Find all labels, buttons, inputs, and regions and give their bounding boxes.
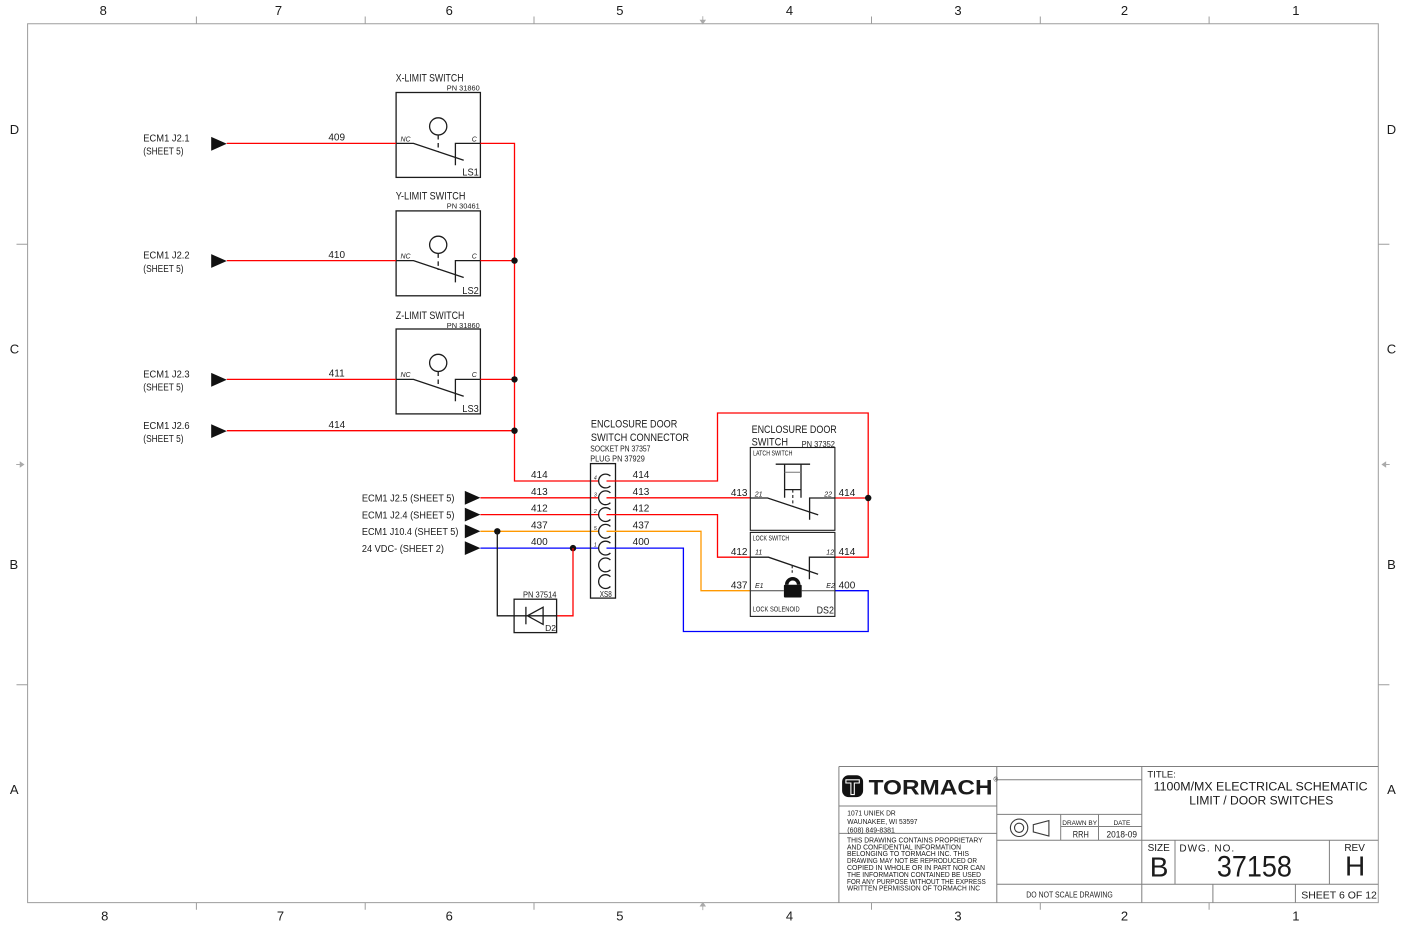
svg-text:B: B: [1387, 557, 1396, 572]
svg-text:ECM1 J2.5 (SHEET 5): ECM1 J2.5 (SHEET 5): [362, 494, 455, 505]
wire red bus from LS1 C down to connector pin 4: [480, 143, 599, 481]
svg-text:SHEET 6 OF 12: SHEET 6 OF 12: [1301, 889, 1377, 901]
wire 414 from ECM1 J2.6: [227, 420, 515, 431]
connector XS8: [590, 418, 689, 598]
svg-text:Z-LIMIT SWITCH: Z-LIMIT SWITCH: [396, 310, 465, 322]
third angle projection symbol: [1010, 819, 1049, 836]
svg-text:C: C: [1387, 342, 1396, 357]
wire 437 left: [480, 520, 599, 531]
svg-text:400: 400: [633, 537, 650, 548]
svg-text:(SHEET 5): (SHEET 5): [143, 383, 183, 394]
node 24 VDC-: [362, 541, 481, 555]
svg-text:6: 6: [446, 909, 453, 924]
svg-text:TORMACH: TORMACH: [869, 776, 993, 799]
svg-text:SWITCH: SWITCH: [752, 437, 788, 449]
wire 413 right: [607, 487, 751, 498]
wire 412 right: [607, 504, 751, 558]
junction at 414 right bus: [865, 495, 871, 501]
svg-text:412: 412: [633, 504, 650, 515]
svg-text:1: 1: [1292, 3, 1299, 18]
svg-text:411: 411: [329, 369, 345, 380]
svg-text:414: 414: [531, 470, 548, 481]
svg-text:8: 8: [100, 3, 107, 18]
svg-text:LATCH SWITCH: LATCH SWITCH: [753, 450, 792, 457]
svg-text:414: 414: [839, 547, 856, 558]
junction on 400 to diode branch: [570, 545, 576, 551]
svg-text:(SHEET 5): (SHEET 5): [143, 264, 183, 275]
svg-text:E2: E2: [826, 583, 835, 590]
svg-text:LS3: LS3: [462, 403, 479, 415]
drawn by / date cells: [1062, 820, 1137, 840]
svg-text:410: 410: [328, 250, 345, 261]
svg-text:1: 1: [1292, 909, 1299, 924]
svg-text:D2: D2: [545, 623, 556, 633]
svg-text:NC: NC: [401, 137, 412, 144]
svg-text:WRITTEN PERMISSION OF TORMACH: WRITTEN PERMISSION OF TORMACH INC: [847, 886, 980, 893]
svg-text:2: 2: [1121, 3, 1128, 18]
svg-text:®: ®: [994, 777, 999, 784]
svg-text:(SHEET 5): (SHEET 5): [143, 147, 183, 158]
svg-text:412: 412: [531, 504, 548, 515]
svg-text:437: 437: [531, 520, 548, 531]
limit switch LS1: [396, 72, 481, 178]
svg-text:DRAWN BY: DRAWN BY: [1062, 820, 1097, 827]
wire 400 left: [480, 537, 599, 548]
node ECM1 J10.4: [362, 524, 481, 538]
node ECM1 J2.4: [362, 508, 481, 522]
node ECM1 J2.2: [143, 251, 227, 275]
svg-text:414: 414: [633, 470, 650, 481]
svg-text:414: 414: [839, 488, 856, 499]
svg-text:H: H: [1345, 851, 1365, 882]
junction on 437 to diode branch: [494, 528, 500, 534]
svg-text:1100M/MX ELECTRICAL SCHEMATIC: 1100M/MX ELECTRICAL SCHEMATIC: [1154, 782, 1368, 794]
svg-text:4: 4: [594, 476, 597, 482]
wire 414 net right of connector: [607, 413, 869, 557]
svg-text:400: 400: [531, 537, 548, 548]
svg-text:8: 8: [101, 909, 108, 924]
svg-text:437: 437: [731, 581, 748, 592]
limit switch LS2: [396, 191, 481, 297]
TITLEBLOCK_GROUP: [839, 767, 1378, 903]
node ECM1 J2.6: [143, 421, 227, 445]
svg-text:ECM1 J10.4 (SHEET 5): ECM1 J10.4 (SHEET 5): [362, 527, 459, 538]
lock switch box: [750, 532, 835, 616]
wire 409: [227, 133, 396, 144]
wire 412 left: [480, 504, 599, 515]
enclosure door switch DS2: [750, 424, 837, 616]
svg-text:4: 4: [786, 3, 793, 18]
svg-text:LS2: LS2: [462, 285, 479, 297]
svg-text:D: D: [10, 122, 19, 137]
svg-text:ECM1 J2.2: ECM1 J2.2: [143, 251, 190, 262]
svg-text:37158: 37158: [1217, 851, 1292, 884]
svg-text:11: 11: [755, 550, 762, 557]
svg-text:B: B: [1150, 852, 1169, 883]
node ECM1 J2.1: [143, 134, 227, 158]
svg-text:DATE: DATE: [1113, 820, 1131, 827]
latch actuator symbol: [776, 463, 810, 465]
svg-text:B: B: [9, 557, 18, 572]
svg-text:ECM1 J2.1: ECM1 J2.1: [143, 134, 190, 145]
svg-text:(608) 849-8381: (608) 849-8381: [847, 825, 895, 834]
svg-text:PN 37514: PN 37514: [523, 590, 557, 599]
svg-text:3: 3: [954, 909, 961, 924]
size / dwg no / rev: [1148, 843, 1366, 883]
svg-text:5: 5: [594, 526, 597, 532]
svg-text:4: 4: [786, 909, 793, 924]
svg-text:X-LIMIT SWITCH: X-LIMIT SWITCH: [396, 72, 464, 84]
junction at 414 / J2.6: [511, 428, 517, 434]
Tormach logo: [842, 775, 998, 799]
svg-text:3: 3: [954, 3, 961, 18]
svg-text:3: 3: [594, 492, 597, 498]
svg-text:437: 437: [633, 520, 650, 531]
svg-text:2: 2: [593, 509, 597, 515]
svg-text:2: 2: [1121, 909, 1128, 924]
svg-text:5: 5: [616, 909, 623, 924]
svg-text:7: 7: [277, 909, 284, 924]
svg-text:ENCLOSURE DOOR: ENCLOSURE DOOR: [752, 424, 837, 436]
svg-text:24 VDC- (SHEET 2): 24 VDC- (SHEET 2): [362, 544, 444, 555]
svg-text:2018-09: 2018-09: [1107, 829, 1138, 840]
svg-text:LS1: LS1: [462, 167, 479, 179]
address block: [847, 808, 917, 834]
svg-text:ENCLOSURE DOOR: ENCLOSURE DOOR: [591, 418, 677, 430]
node ECM1 J2.3: [143, 370, 227, 394]
node ECM1 J2.5: [362, 491, 481, 505]
svg-text:RRH: RRH: [1073, 829, 1089, 840]
svg-text:PN 30461: PN 30461: [447, 204, 480, 211]
wire latch pin 22 stub: [835, 497, 868, 499]
svg-text:E1: E1: [755, 583, 764, 590]
svg-text:D: D: [1387, 122, 1396, 137]
svg-text:409: 409: [328, 133, 345, 144]
svg-text:414: 414: [329, 420, 346, 431]
lock solenoid padlock: [787, 579, 799, 585]
solenoid E1-E2 line: [750, 590, 835, 592]
wire 413 left: [480, 487, 599, 498]
svg-text:A: A: [10, 782, 19, 797]
svg-text:5: 5: [616, 3, 623, 18]
latch switch box: [750, 448, 835, 531]
svg-text:XS8: XS8: [600, 590, 612, 599]
wire 437 right: [607, 520, 751, 590]
SCHEMATIC_GROUP: [143, 72, 871, 633]
svg-text:NC: NC: [401, 372, 412, 379]
wire 400 right: [607, 537, 869, 631]
svg-text:ECM1 J2.4 (SHEET 5): ECM1 J2.4 (SHEET 5): [362, 510, 455, 521]
svg-text:DS2: DS2: [817, 605, 835, 616]
svg-text:LOCK SWITCH: LOCK SWITCH: [753, 535, 790, 542]
svg-text:400: 400: [839, 581, 856, 592]
svg-text:LOCK SOLENOID: LOCK SOLENOID: [753, 607, 800, 614]
svg-text:1: 1: [594, 543, 597, 549]
title: [1147, 770, 1367, 808]
svg-text:TITLE:: TITLE:: [1147, 770, 1176, 781]
legal text: [847, 837, 986, 892]
wire 410: [227, 250, 396, 261]
svg-text:DO NOT SCALE DRAWING: DO NOT SCALE DRAWING: [1026, 890, 1112, 899]
svg-text:C: C: [10, 342, 19, 357]
limit switch LS3: [396, 310, 481, 415]
svg-text:413: 413: [731, 488, 748, 499]
svg-text:1071 UNIEK DR: 1071 UNIEK DR: [847, 808, 896, 817]
svg-text:SWITCH CONNECTOR: SWITCH CONNECTOR: [591, 432, 689, 444]
svg-text:12: 12: [826, 550, 834, 557]
diode D2: [497, 531, 573, 633]
svg-text:PLUG PN 37929: PLUG PN 37929: [590, 455, 645, 464]
wire LS3 C to bus: [480, 378, 514, 380]
svg-text:413: 413: [633, 487, 650, 498]
junction at LS2 C: [511, 257, 517, 263]
svg-text:NC: NC: [401, 254, 412, 261]
svg-text:412: 412: [731, 547, 748, 558]
svg-text:A: A: [1387, 782, 1396, 797]
svg-text:7: 7: [275, 3, 282, 18]
svg-text:(SHEET 5): (SHEET 5): [143, 434, 183, 445]
svg-text:6: 6: [446, 3, 453, 18]
svg-text:Y-LIMIT SWITCH: Y-LIMIT SWITCH: [396, 191, 466, 203]
svg-text:ECM1 J2.3: ECM1 J2.3: [143, 370, 190, 381]
wire 411: [227, 369, 396, 380]
svg-text:ECM1 J2.6: ECM1 J2.6: [143, 421, 190, 432]
wire LS2 C to bus: [480, 260, 514, 262]
svg-text:PN 31860: PN 31860: [447, 85, 480, 92]
svg-text:LIMIT / DOOR SWITCHES: LIMIT / DOOR SWITCHES: [1189, 795, 1333, 807]
junction at LS3 C: [511, 376, 517, 382]
svg-text:413: 413: [531, 487, 548, 498]
svg-text:SOCKET PN 37357: SOCKET PN 37357: [590, 444, 651, 453]
